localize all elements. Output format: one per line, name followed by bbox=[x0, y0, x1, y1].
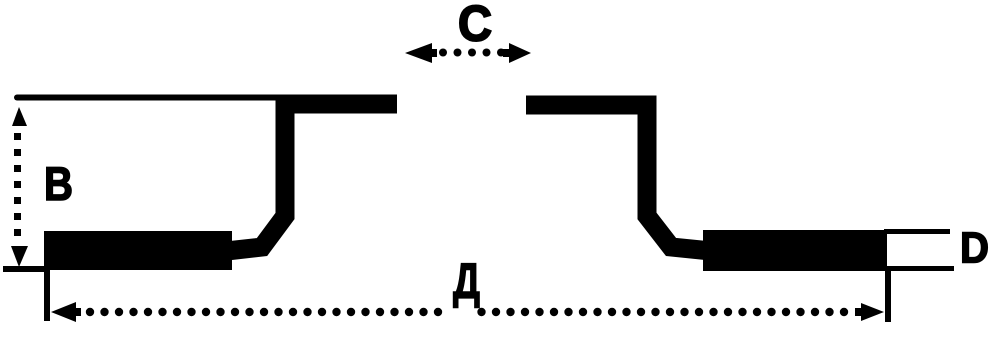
svg-text:B: B bbox=[44, 157, 73, 210]
right lead (bent strip) bbox=[526, 105, 706, 251]
dimension D (bottom) right arrowhead bbox=[861, 303, 884, 321]
dimension B bottom tick bbox=[3, 266, 46, 272]
dimension C dots bbox=[439, 49, 505, 57]
dimension D (bottom) dotted line bbox=[86, 308, 848, 316]
dimension D (bottom) left arrowhead bbox=[51, 302, 76, 322]
right pad bar bbox=[703, 230, 887, 271]
dimension C left arrowhead bbox=[405, 43, 432, 63]
D extension line bottom bbox=[884, 266, 954, 271]
dimension B top arrowhead bbox=[12, 107, 27, 126]
top line (package top edge, left) bbox=[17, 95, 282, 101]
svg-text:C: C bbox=[458, 0, 492, 52]
dimension C right arrowhead bbox=[509, 43, 531, 63]
left lead (bent strip) bbox=[231, 104, 397, 251]
svg-text:D: D bbox=[960, 224, 989, 273]
dimension B dotted line bbox=[14, 133, 21, 236]
left pad bar bbox=[44, 231, 232, 270]
left extension line (down from pad) bbox=[44, 269, 50, 321]
D extension line top bbox=[884, 229, 950, 234]
dimension B bottom arrowhead bbox=[11, 246, 28, 267]
svg-text:Д: Д bbox=[453, 255, 480, 309]
right extension line (down from pad) bbox=[885, 269, 891, 322]
